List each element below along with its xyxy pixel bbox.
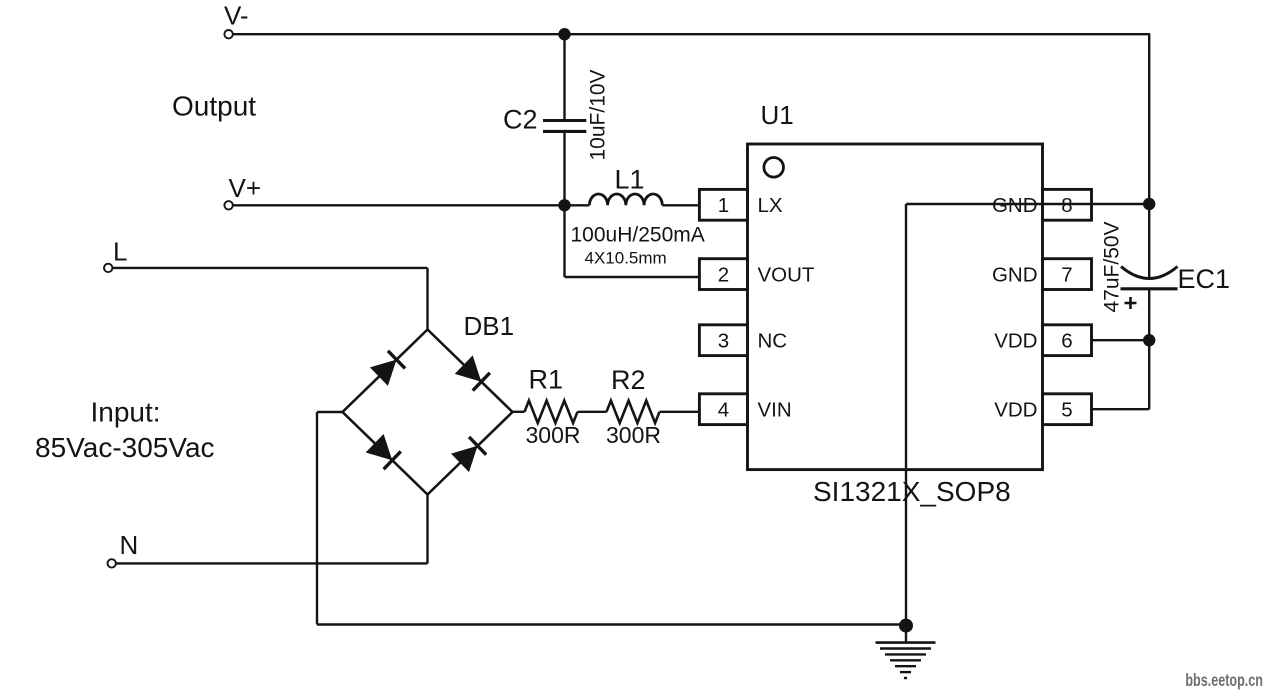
wire L drop to bridge: [426, 268, 428, 330]
diode DB1 top-right: [455, 355, 491, 391]
svg-text:VOUT: VOUT: [758, 263, 815, 286]
svg-text:5: 5: [1061, 399, 1072, 422]
wire L horizontal: [112, 267, 427, 269]
IC U1 pin-1 marker circle: [764, 158, 784, 178]
svg-text:4: 4: [718, 399, 729, 422]
junction pin 6 rail: [1143, 334, 1155, 346]
node N terminal: [108, 559, 116, 567]
bridge DB1 outline: [343, 330, 513, 495]
pin 7 box: [1043, 259, 1092, 290]
svg-text:85Vac-305Vac: 85Vac-305Vac: [35, 432, 215, 463]
wire C2 upper lead: [563, 34, 565, 120]
IC U1 body: [748, 144, 1043, 470]
node V- terminal: [224, 30, 232, 38]
junction V+ / C2 / L1 / VOUT: [558, 199, 570, 211]
wire pin 5 to rail: [1092, 408, 1150, 410]
svg-text:7: 7: [1061, 263, 1072, 286]
junction pin 8 rail: [1143, 198, 1155, 210]
pin 4 box: [699, 394, 747, 425]
pin 3 box: [699, 325, 747, 356]
svg-text:GND: GND: [992, 194, 1038, 217]
capacitor EC1 curved plate: [1121, 267, 1178, 279]
svg-text:Output: Output: [172, 91, 256, 122]
ground symbol: [876, 643, 936, 678]
wire C2 lower lead: [563, 131, 565, 205]
svg-text:C2: C2: [503, 105, 538, 135]
svg-text:8: 8: [1061, 194, 1072, 217]
resistor R2: [607, 401, 660, 423]
svg-text:V+: V+: [229, 173, 262, 203]
wire N horizontal: [116, 562, 428, 564]
pin 6 box: [1043, 325, 1092, 356]
svg-text:Input:: Input:: [91, 396, 161, 427]
wire R2 to pin 4: [660, 411, 700, 413]
svg-text:EC1: EC1: [1178, 264, 1231, 294]
svg-text:4X10.5mm: 4X10.5mm: [585, 248, 667, 267]
wire bottom horizontal to ground: [317, 623, 906, 625]
svg-text:300R: 300R: [606, 422, 661, 448]
svg-text:10uF/10V: 10uF/10V: [587, 69, 610, 160]
svg-text:SI1321X_SOP8: SI1321X_SOP8: [813, 476, 1011, 507]
wire right rail upper: [1148, 33, 1150, 277]
wire L1 to pin 1: [662, 204, 699, 206]
wire GND vertical: [905, 204, 907, 625]
inductor L1: [589, 194, 662, 205]
svg-text:2: 2: [718, 263, 729, 286]
wire VOUT horizontal: [565, 276, 700, 278]
svg-text:1: 1: [718, 194, 729, 217]
capacitor C2 plates: [543, 121, 586, 132]
wire V+: [233, 204, 590, 206]
wire bridge bottom to N: [426, 495, 428, 564]
svg-text:V-: V-: [224, 1, 249, 31]
svg-text:VDD: VDD: [994, 399, 1037, 422]
wire EC1 to VDD rail: [1148, 289, 1150, 409]
pin 1 box: [699, 189, 747, 220]
pin 5 box: [1043, 394, 1092, 425]
diode DB1 top-left: [370, 350, 406, 386]
svg-text:NC: NC: [758, 330, 788, 353]
diode DB1 bottom-left: [366, 434, 402, 470]
capacitor EC1 straight plate: [1121, 287, 1178, 290]
wire bridge to R1: [513, 411, 525, 413]
svg-text:100uH/250mA: 100uH/250mA: [571, 224, 705, 247]
svg-text:LX: LX: [758, 194, 783, 217]
node L terminal: [104, 264, 112, 272]
wire ground stub: [905, 626, 907, 643]
wire GND pin 8 horizontal: [906, 203, 1149, 205]
svg-text:VIN: VIN: [758, 399, 792, 422]
svg-text:GND: GND: [992, 263, 1038, 286]
svg-text:3: 3: [718, 330, 729, 353]
junction ground node: [899, 619, 913, 633]
diode DB1 bottom-right: [451, 437, 487, 473]
wire bridge left stub: [317, 411, 343, 413]
wire left vertical: [316, 412, 318, 625]
svg-text:L1: L1: [615, 165, 645, 195]
svg-text:L: L: [113, 237, 127, 267]
wire V+ to VOUT vertical: [563, 205, 565, 277]
junction C2 top: [558, 28, 570, 40]
pin 2 box: [699, 259, 747, 290]
svg-text:6: 6: [1061, 330, 1072, 353]
wire R1 to R2: [578, 411, 607, 413]
svg-text:300R: 300R: [526, 422, 581, 448]
svg-text:R2: R2: [611, 365, 646, 395]
svg-text:R1: R1: [529, 365, 564, 395]
wire pin 6 to rail: [1092, 339, 1150, 341]
svg-text:N: N: [120, 530, 139, 560]
EC1 plus sign: [1125, 297, 1137, 309]
pin 8 box: [1043, 189, 1092, 220]
svg-text:VDD: VDD: [994, 330, 1037, 353]
wire V- rail: [233, 33, 1149, 35]
svg-text:DB1: DB1: [464, 311, 515, 341]
svg-text:47uF/50V: 47uF/50V: [1101, 221, 1124, 312]
node V+ terminal: [224, 201, 232, 209]
svg-text:bbs.eetop.cn: bbs.eetop.cn: [1185, 671, 1263, 691]
svg-text:U1: U1: [761, 100, 794, 130]
resistor R1: [525, 401, 578, 423]
